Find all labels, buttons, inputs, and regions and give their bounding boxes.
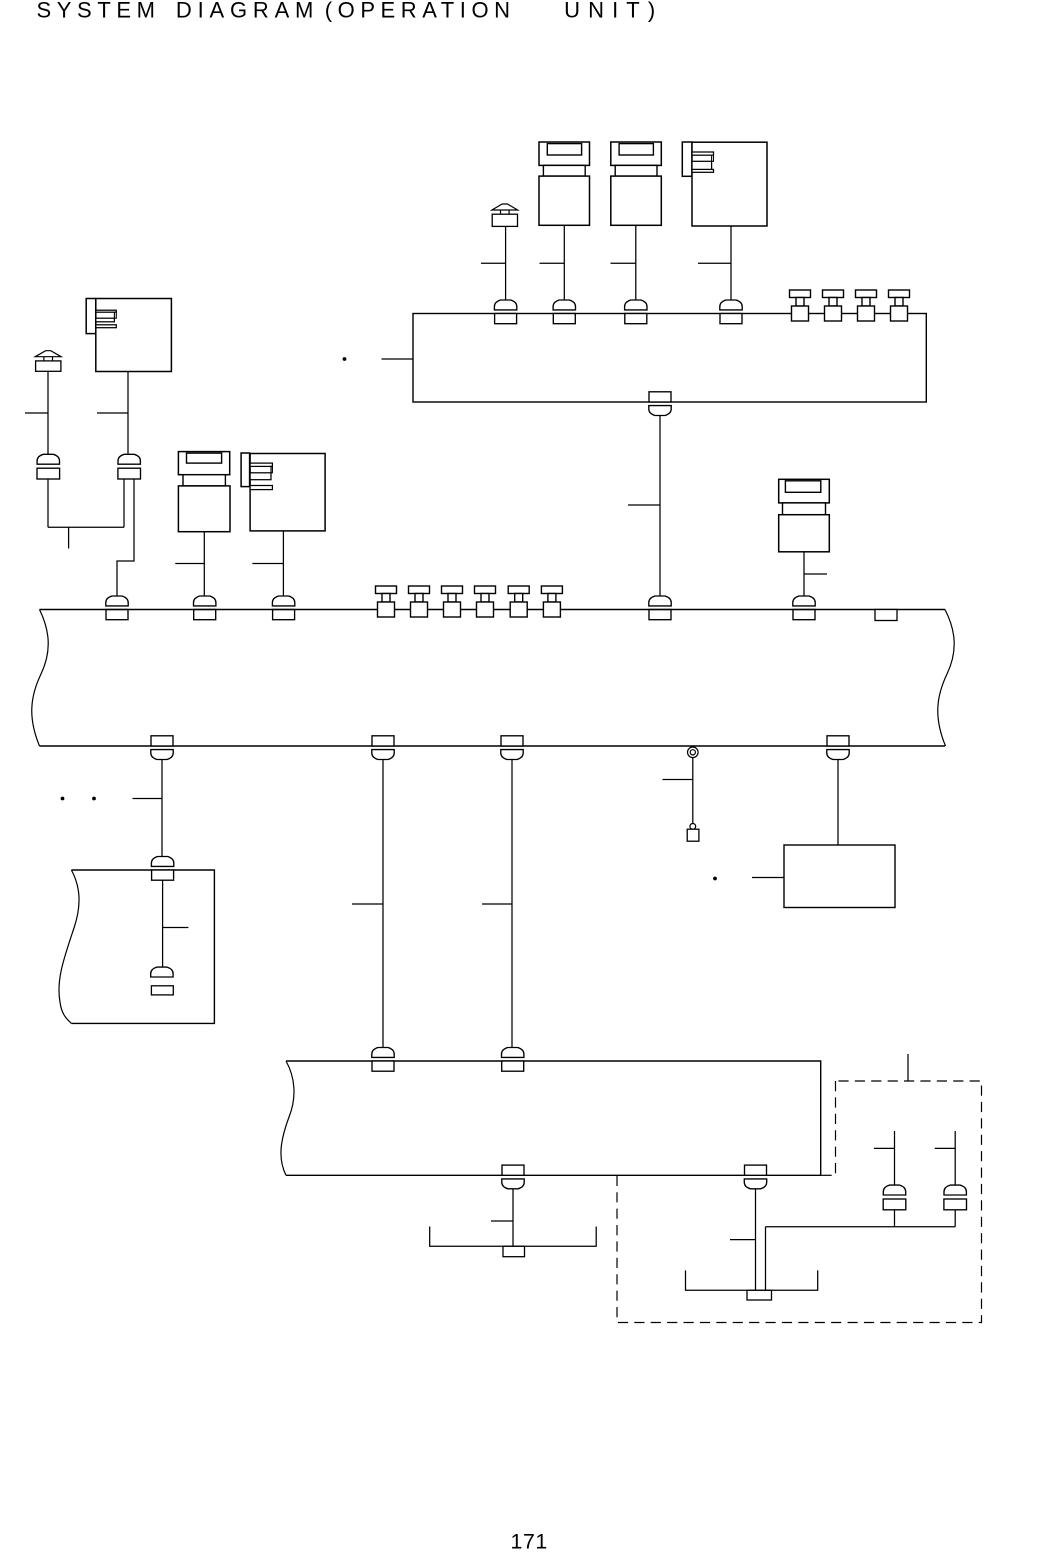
dome plug inside left sub board [151, 967, 173, 977]
tick on wire x731 [698, 262, 731, 264]
left sub board outline [71, 870, 214, 1023]
connector CN dome upper box x505 [494, 300, 516, 324]
wire upper box to main bus [659, 416, 661, 596]
connector CN bottom main bus x383 [372, 736, 394, 760]
wire up from pair B [954, 1131, 956, 1185]
tick on wire x128 [97, 412, 128, 414]
connector CN top lower board x383 [372, 1048, 394, 1072]
inline connector pair left B [118, 454, 141, 479]
inline connector pair dashed B [944, 1185, 967, 1210]
wire pairB left leg [123, 479, 125, 527]
connector CN dome main bus x117 [106, 596, 128, 620]
wire inside left sub board [162, 881, 164, 968]
bracket bar left [430, 1227, 597, 1247]
button SW (small cap) top [492, 204, 518, 226]
latched connector unit mid [241, 453, 325, 531]
key switch 1 top [539, 142, 590, 225]
board connector T2 upper box [823, 290, 844, 321]
bracket bar right [686, 1270, 818, 1290]
connector CN dome main bus x804 [793, 596, 815, 620]
wire lower board x513 down [512, 1189, 514, 1246]
board connector T9 main bus [508, 586, 529, 617]
ref dot 1 [61, 797, 65, 801]
inline connector pair left A [37, 454, 60, 479]
wire left button down [47, 371, 49, 454]
wire down from pair A [894, 1210, 896, 1227]
loose rect plug inside left sub board [151, 986, 173, 995]
wire main bus x383 down [382, 760, 384, 1048]
svg-text:SYSTEM: SYSTEM [37, 0, 161, 22]
board connector T7 main bus [442, 586, 463, 617]
connector CN dome upper box x635 [625, 300, 647, 324]
tick on wire x513 [491, 1220, 513, 1222]
board connector T6 main bus [409, 586, 430, 617]
wire down from pair B [954, 1210, 956, 1227]
ref dot left of upper box [343, 357, 347, 361]
connector CN bottom main bus x838 [827, 736, 849, 760]
tick on wire x564 [540, 262, 565, 264]
svg-text:DIAGRAM: DIAGRAM [176, 0, 319, 22]
wire main bus x838 down [837, 760, 839, 845]
latched connector unit top [682, 142, 767, 226]
wire main bus x162 down [161, 760, 163, 857]
stub wire into sub box [752, 877, 784, 879]
ref dot 3 [713, 877, 717, 881]
inline connector pair dashed A [883, 1185, 906, 1210]
connector CN bottom main bus x162 [151, 736, 173, 760]
stub wire down x68 [68, 527, 70, 548]
tick on wire x660 [628, 504, 660, 506]
svg-text:(OPERATION: (OPERATION [325, 0, 516, 22]
wire joint horizontal [48, 526, 124, 528]
ref dot 2 [92, 797, 96, 801]
connector CN bottom main bus x512 [501, 736, 523, 760]
board connector T5 main bus [376, 586, 397, 617]
board connector T1 upper box [790, 290, 811, 321]
tick on wire x955 [935, 1147, 956, 1149]
wire latched mid to main bus [282, 531, 284, 596]
key switch 3 mid-left [178, 452, 230, 532]
connector CN dome main bus x283 [272, 596, 294, 620]
grommet under main bus [688, 747, 699, 758]
svg-text:171: 171 [511, 1529, 548, 1553]
connector CN bottom lower board x755 [744, 1165, 766, 1189]
board connector T4 upper box [889, 290, 910, 321]
key switch 2 top [611, 142, 662, 225]
dashed option box outline [617, 1081, 982, 1323]
wire horizontal to plugs [766, 1226, 956, 1228]
connector CN dome upper box x731 [720, 300, 742, 324]
wire lower board x755 down [755, 1189, 757, 1290]
connector CN dome main bus x204 [194, 596, 216, 620]
wire grommet down [692, 758, 694, 824]
connector CN bottom lower board x513 [502, 1165, 524, 1189]
latched connector unit left [86, 299, 171, 372]
tick on wire x894 [874, 1147, 895, 1149]
connector CN dome main bus x660 [649, 596, 671, 620]
wire latched unit to upper box [730, 226, 732, 300]
terminal rect under bracket right [747, 1290, 772, 1300]
tick on wire x635 [611, 262, 636, 264]
tick on wire x755 [730, 1239, 756, 1241]
tick on wire x505 [481, 262, 506, 264]
tick on wire x692 [663, 779, 693, 781]
node stub at upper box left [382, 358, 414, 360]
key switch 4 mid-right [779, 479, 830, 552]
operation sub box [784, 845, 895, 908]
tick on wire x48 [25, 412, 48, 414]
connector CN top of left sub board [151, 857, 173, 881]
earth terminal [690, 824, 696, 830]
main board outline [40, 609, 946, 611]
tick inside left sub board [163, 927, 189, 929]
tick on wire x283 [252, 563, 283, 565]
connector CN top lower board x512 [502, 1048, 524, 1072]
wire button to upper box [505, 226, 507, 300]
wire key1 to upper box [563, 225, 565, 300]
wire parallel x765 [765, 1227, 767, 1291]
terminal rect under bracket left [503, 1246, 525, 1256]
tick on wire x162 [133, 798, 163, 800]
wire key3 to main bus [203, 532, 205, 596]
wire main bus x512 down [511, 760, 513, 1048]
wire key2 to upper box [635, 225, 637, 300]
board connector T3 upper box [856, 290, 877, 321]
button SW (small cap) left [35, 351, 61, 372]
lower board outline [286, 1061, 821, 1175]
board connector T8 main bus [475, 586, 496, 617]
connector CN dome upper box x564 [553, 300, 575, 324]
svg-text:UNIT): UNIT) [564, 0, 663, 22]
tick on wire x512 [482, 903, 512, 905]
wire up from pair A [894, 1131, 896, 1185]
wire left latched unit down [127, 372, 129, 455]
connector CN bottom of upper box [649, 392, 671, 416]
board connector T10 main bus [541, 586, 562, 617]
tick on wire x804 right [804, 573, 827, 575]
wire key4 to main bus [803, 552, 805, 596]
upper panel board box [413, 314, 926, 403]
plain connector rect main bus x885 [875, 610, 897, 621]
tick on wire x383 [352, 903, 383, 905]
tick on wire x204 [175, 563, 204, 565]
stub wire above dashed box [907, 1054, 909, 1081]
wire pairA down [47, 479, 49, 527]
wire pairB right leg [117, 479, 134, 596]
